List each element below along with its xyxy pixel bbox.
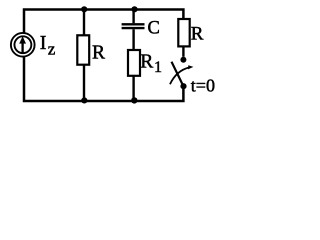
svg-text:R: R bbox=[140, 52, 153, 73]
svg-text:R: R bbox=[92, 43, 105, 64]
svg-text:R: R bbox=[191, 24, 204, 45]
svg-text:t=0: t=0 bbox=[191, 76, 215, 96]
svg-text:C: C bbox=[148, 19, 160, 39]
svg-text:z: z bbox=[48, 40, 56, 59]
svg-text:1: 1 bbox=[154, 59, 162, 76]
svg-text:I: I bbox=[40, 32, 47, 54]
